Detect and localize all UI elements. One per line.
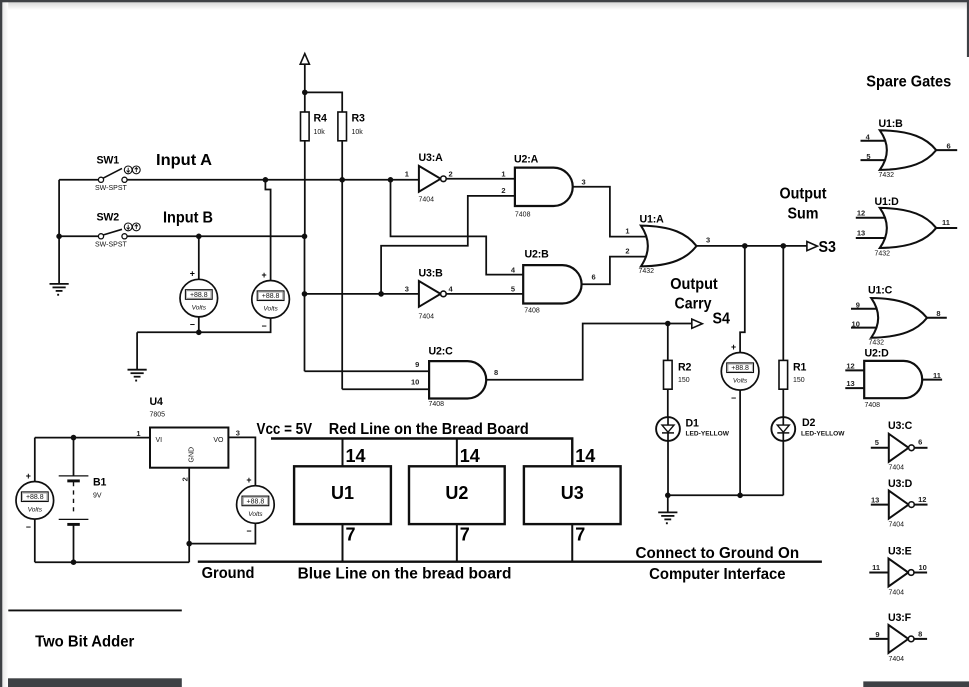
svg-text:3: 3 — [236, 429, 240, 438]
wire U1 pin14 — [342, 439, 344, 467]
svg-text:U3:D: U3:D — [888, 478, 913, 490]
svg-text:5: 5 — [511, 285, 515, 294]
svg-text:+: + — [190, 269, 195, 279]
pin 10 U3:E — [919, 563, 927, 572]
wire U3:A out — [446, 178, 515, 180]
inverter U3:D — [871, 478, 928, 529]
and-gate U2:D — [845, 347, 942, 409]
chip U3 box — [524, 466, 621, 524]
wire B branch to U2:A pin2 — [381, 196, 515, 294]
label connect — [636, 545, 800, 562]
svg-text:Computer Interface: Computer Interface — [649, 566, 786, 583]
ground left — [50, 284, 69, 296]
svg-text:LED-YELLOW: LED-YELLOW — [686, 431, 730, 438]
chip U1 box — [294, 466, 391, 524]
junction dot gnd-V5 — [186, 541, 192, 547]
ground leds — [658, 512, 677, 524]
battery B1 — [59, 438, 107, 563]
svg-text:VO: VO — [213, 437, 224, 444]
pin 10 U1:C — [852, 319, 860, 328]
wire U4 input — [35, 437, 150, 439]
label interface — [649, 566, 786, 583]
voltmeter V3 — [721, 342, 759, 403]
svg-text:−: − — [262, 321, 267, 331]
wire U2 pin7 — [456, 524, 458, 562]
svg-text:+88.8: +88.8 — [247, 498, 265, 505]
wire V4 column top — [34, 438, 36, 482]
svg-text:7: 7 — [575, 525, 585, 545]
svg-text:Output: Output — [670, 276, 718, 293]
pin 11 U2:D — [933, 371, 941, 380]
wire V1 top — [198, 236, 200, 279]
svg-text:150: 150 — [793, 377, 805, 384]
svg-text:U3:E: U3:E — [888, 546, 912, 558]
svg-text:−: − — [246, 526, 251, 536]
svg-text:7: 7 — [460, 525, 470, 545]
pin 12 U1:D — [857, 208, 865, 217]
pin 2 U2:A — [501, 186, 505, 195]
pin 12 U3:D — [918, 495, 926, 504]
label blue line — [298, 565, 512, 582]
svg-text:6: 6 — [918, 437, 922, 446]
pin 12 U2:D — [846, 362, 854, 371]
svg-text:11: 11 — [872, 563, 880, 572]
label Two Bit Adder — [35, 633, 134, 650]
and-gate U2:C — [429, 346, 487, 409]
svg-text:SW2: SW2 — [97, 212, 120, 224]
pin 4 U3:B — [449, 285, 454, 294]
junction dot B-R4 — [302, 234, 308, 240]
wire R1-D2 — [782, 389, 784, 417]
svg-text:9: 9 — [415, 360, 419, 369]
svg-text:8: 8 — [936, 309, 940, 318]
svg-text:5: 5 — [866, 152, 870, 161]
inverter U3:B — [419, 268, 447, 321]
svg-text:10: 10 — [919, 563, 927, 572]
junction dot A-V2 — [263, 177, 269, 183]
svg-text:7805: 7805 — [150, 412, 166, 419]
svg-text:+: + — [262, 270, 267, 280]
label Output Sum — [780, 186, 828, 223]
svg-text:+: + — [731, 342, 736, 352]
svg-text:1: 1 — [405, 170, 409, 179]
svg-text:10k: 10k — [314, 129, 326, 136]
junction dot A-branch — [388, 177, 394, 183]
wire pullup top branch — [305, 92, 342, 112]
svg-text:VI: VI — [156, 437, 163, 444]
svg-text:150: 150 — [678, 377, 690, 384]
svg-text:LED-YELLOW: LED-YELLOW — [801, 431, 845, 438]
wire D2 bottom — [782, 441, 784, 495]
wire node B column — [304, 236, 306, 371]
svg-text:Input A: Input A — [156, 152, 212, 169]
or-gate U1:A — [639, 214, 697, 276]
wire U4 gnd column — [188, 468, 190, 563]
svg-text:U1: U1 — [331, 483, 354, 503]
power symbol VCC arrow — [300, 54, 309, 112]
svg-text:Sum: Sum — [788, 205, 819, 222]
pin 8 U2:C — [494, 368, 498, 377]
wire U1 pin7 — [342, 524, 344, 562]
svg-text:7432: 7432 — [639, 268, 655, 275]
pin 1 U1:A — [625, 227, 629, 236]
voltmeter V4 — [16, 471, 54, 532]
wire gnd3 stub — [667, 495, 669, 512]
or-gate U1:D — [856, 196, 957, 257]
inverter U3:A — [419, 152, 447, 203]
svg-text:+88.8: +88.8 — [190, 292, 208, 299]
voltmeter V2 — [252, 270, 290, 331]
svg-text:9: 9 — [856, 300, 860, 309]
svg-text:2: 2 — [501, 186, 505, 195]
svg-text:9V: 9V — [93, 493, 102, 500]
svg-text:7404: 7404 — [889, 590, 905, 597]
wire carry output — [486, 324, 692, 380]
svg-text:5: 5 — [875, 438, 879, 447]
wire V5 bottom link — [189, 524, 255, 544]
svg-text:U1:B: U1:B — [879, 118, 904, 130]
svg-text:3: 3 — [706, 236, 710, 245]
title line — [8, 609, 182, 611]
svg-text:Carry: Carry — [675, 296, 712, 313]
svg-text:+: + — [26, 471, 31, 481]
svg-text:S4: S4 — [713, 310, 731, 327]
svg-text:U2:B: U2:B — [525, 249, 550, 261]
wire SW left column — [58, 180, 60, 284]
svg-text:3: 3 — [405, 285, 409, 294]
svg-text:1: 1 — [136, 429, 140, 438]
junction dot B column U3B — [302, 291, 308, 297]
svg-text:3: 3 — [582, 178, 586, 187]
label 14 U2 — [460, 446, 480, 466]
pin 3 U2:A — [582, 178, 586, 187]
pin 9 U1:C — [856, 300, 860, 309]
wire U2 pin14 — [456, 439, 458, 467]
svg-text:12: 12 — [857, 208, 865, 217]
svg-text:Volts: Volts — [248, 511, 263, 518]
svg-text:D2: D2 — [802, 417, 816, 429]
svg-text:Volts: Volts — [263, 306, 278, 313]
label S4 — [713, 310, 731, 327]
wire bottom rail — [35, 561, 189, 563]
svg-text:7408: 7408 — [524, 308, 540, 315]
pin 8 U3:F — [918, 629, 922, 638]
pin 1 U2:A — [501, 170, 505, 179]
inverter U3:C — [871, 420, 928, 471]
wire ground2 column — [136, 332, 138, 369]
svg-text:U2:D: U2:D — [865, 347, 890, 359]
label 7 U1 — [346, 525, 356, 545]
node S4 arrow — [692, 319, 703, 328]
svg-text:13: 13 — [871, 496, 879, 505]
svg-text:−: − — [731, 393, 736, 403]
svg-text:11: 11 — [933, 371, 941, 380]
svg-text:7404: 7404 — [889, 465, 905, 472]
svg-text:1: 1 — [501, 170, 505, 179]
wire vcc rail — [271, 439, 572, 467]
svg-text:−: − — [26, 522, 31, 532]
label S3 — [819, 239, 837, 256]
pin 5 U1:B — [866, 152, 870, 161]
svg-text:SW-SPST: SW-SPST — [95, 185, 127, 192]
or-gate U1:C — [851, 285, 947, 347]
svg-text:B1: B1 — [93, 477, 107, 489]
svg-text:8: 8 — [494, 368, 498, 377]
label Vcc — [257, 421, 313, 438]
wire D1 bottom — [667, 441, 669, 495]
wire U2:C pin9 — [305, 370, 430, 372]
svg-text:10k: 10k — [352, 129, 364, 136]
pin 13 U1:D — [857, 229, 865, 238]
wire U2:A out elbow — [573, 187, 652, 237]
resistor R4 — [301, 112, 328, 141]
voltmeter V1 — [180, 269, 218, 330]
pin 5 U3:C — [875, 438, 879, 447]
svg-text:Vcc = 5V: Vcc = 5V — [257, 421, 313, 438]
pin 1 U4 — [136, 429, 140, 438]
wire led ground rail — [668, 494, 784, 496]
svg-text:7432: 7432 — [879, 172, 895, 179]
svg-text:Blue Line on the bread board: Blue Line on the bread board — [298, 565, 512, 582]
svg-text:Spare Gates: Spare Gates — [866, 73, 951, 90]
svg-text:Two Bit Adder: Two Bit Adder — [35, 633, 134, 650]
pin 6 U1:B — [947, 141, 951, 150]
svg-text:GND: GND — [189, 447, 196, 463]
svg-text:U3:C: U3:C — [888, 420, 913, 432]
svg-text:U3:F: U3:F — [888, 612, 912, 624]
junction dot battery top — [71, 435, 77, 441]
svg-text:R3: R3 — [352, 113, 366, 125]
svg-text:U2:C: U2:C — [429, 346, 454, 358]
pin 3 U3:B — [405, 285, 409, 294]
svg-text:Volts: Volts — [28, 507, 43, 514]
and-gate U2:A — [514, 154, 573, 219]
svg-text:U2:A: U2:A — [514, 154, 539, 166]
svg-text:2: 2 — [625, 247, 629, 256]
node S3 arrow — [807, 242, 818, 251]
wire U2:B out elbow — [582, 257, 652, 285]
switch SW2 — [95, 212, 140, 249]
label 14 U3 — [575, 446, 595, 466]
svg-text:Connect to Ground On: Connect to Ground On — [636, 545, 800, 562]
wire U3:B input line — [305, 293, 419, 295]
label Spare Gates — [866, 73, 951, 90]
pin 3 U1:A — [706, 236, 710, 245]
svg-text:13: 13 — [857, 229, 865, 238]
wire R2 top — [667, 324, 669, 361]
svg-text:U3: U3 — [561, 483, 584, 503]
or-gate U1:B — [861, 118, 958, 179]
svg-text:7408: 7408 — [429, 401, 445, 408]
junction dot B-V1 — [196, 234, 202, 240]
junction dot battery bottom — [71, 559, 77, 565]
svg-text:−: − — [190, 320, 195, 330]
svg-text:R4: R4 — [314, 113, 328, 125]
junction dot sum-V3 — [742, 243, 748, 249]
label red line — [329, 421, 529, 438]
pin 10 U2:C — [411, 378, 419, 387]
svg-text:+88.8: +88.8 — [731, 365, 749, 372]
svg-text:Volts: Volts — [192, 305, 207, 312]
svg-text:12: 12 — [846, 362, 854, 371]
regulator U4 box — [150, 396, 229, 481]
wire V2 jog — [265, 180, 270, 281]
junction dot SW left — [56, 234, 62, 240]
label 14 U1 — [346, 446, 366, 466]
resistor R3 — [338, 112, 365, 141]
pin 1 U3:A — [405, 170, 409, 179]
wire A branch to U2:B pin4 — [391, 180, 524, 275]
svg-text:6: 6 — [592, 273, 596, 282]
svg-text:Output: Output — [780, 186, 828, 203]
svg-text:+88.8: +88.8 — [262, 293, 280, 300]
svg-text:6: 6 — [947, 141, 951, 150]
wire U4 output — [228, 437, 255, 485]
svg-text:8: 8 — [918, 629, 922, 638]
and-gate U2:B — [523, 249, 581, 315]
svg-text:SW-SPST: SW-SPST — [95, 241, 127, 248]
svg-text:+88.8: +88.8 — [26, 494, 44, 501]
ground meters — [128, 370, 147, 382]
svg-text:R2: R2 — [678, 362, 692, 374]
pin 13 U3:D — [871, 496, 879, 505]
wire V1 bottom — [198, 317, 200, 332]
junction dot V bottoms — [196, 330, 202, 336]
svg-text:U3:A: U3:A — [419, 152, 444, 164]
label Ground — [202, 565, 255, 582]
svg-text:Input B: Input B — [163, 210, 213, 227]
wire input B line — [59, 235, 304, 237]
junction dot D1 gnd — [665, 493, 671, 499]
wire U3 pin7 — [571, 524, 573, 562]
pin 2 U1:A — [625, 247, 629, 256]
label Output Carry — [670, 276, 718, 313]
pin 11 U1:D — [942, 218, 950, 227]
pin 6 U2:B — [592, 273, 596, 282]
chip U2 box — [409, 466, 505, 524]
led D2 — [771, 417, 845, 441]
svg-text:7432: 7432 — [875, 250, 891, 257]
svg-text:14: 14 — [346, 446, 366, 466]
wire V3 branch — [740, 246, 745, 353]
voltmeter V5 — [237, 475, 275, 536]
svg-text:7404: 7404 — [419, 196, 435, 203]
wire sum output — [697, 245, 807, 247]
svg-text:+: + — [246, 475, 251, 485]
svg-text:1: 1 — [625, 227, 629, 236]
svg-text:D1: D1 — [686, 418, 700, 430]
led D1 — [656, 417, 730, 441]
svg-text:7408: 7408 — [515, 212, 531, 219]
wire V3 bottom — [739, 390, 741, 495]
label 7 U2 — [460, 525, 470, 545]
wire V2 bottom — [137, 318, 271, 333]
svg-text:SW1: SW1 — [97, 155, 120, 167]
svg-text:Ground: Ground — [202, 565, 255, 582]
svg-text:7404: 7404 — [889, 656, 905, 663]
junction dot pullup top — [302, 90, 308, 96]
svg-text:Red Line on the Bread Board: Red Line on the Bread Board — [329, 421, 529, 438]
svg-text:Volts: Volts — [733, 378, 748, 385]
svg-text:14: 14 — [575, 446, 595, 466]
svg-text:11: 11 — [942, 218, 950, 227]
svg-text:U1:D: U1:D — [875, 196, 900, 208]
wire R4 column — [304, 141, 306, 237]
wire U2:C pin10 — [342, 388, 429, 390]
junction dot V3 gnd — [737, 493, 743, 499]
pin 5 U2:B — [511, 285, 515, 294]
svg-text:R1: R1 — [793, 362, 807, 374]
svg-text:2: 2 — [449, 170, 453, 179]
svg-text:2: 2 — [181, 477, 190, 481]
svg-text:13: 13 — [846, 379, 854, 388]
svg-text:U1:A: U1:A — [640, 214, 665, 226]
svg-text:U2: U2 — [445, 483, 468, 503]
inverter U3:F — [869, 612, 927, 663]
pin 3 U4 — [236, 429, 240, 438]
junction dot sum-R1 — [781, 243, 787, 249]
svg-text:7404: 7404 — [419, 314, 435, 321]
label 7 U3 — [575, 525, 585, 545]
svg-text:7: 7 — [346, 525, 356, 545]
svg-text:7432: 7432 — [869, 340, 885, 347]
pin 8 U1:C — [936, 309, 940, 318]
pin 2 U3:A — [449, 170, 453, 179]
pin 9 U3:F — [875, 630, 879, 639]
wire R1 top — [782, 246, 784, 361]
svg-text:U1:C: U1:C — [868, 285, 893, 297]
wire R2-D1 — [667, 389, 669, 417]
svg-text:7404: 7404 — [889, 522, 905, 529]
svg-text:9: 9 — [875, 630, 879, 639]
resistor R1 — [779, 360, 807, 389]
svg-text:U4: U4 — [150, 396, 164, 408]
svg-text:7408: 7408 — [865, 402, 881, 409]
wire blue rail — [198, 561, 822, 563]
svg-text:12: 12 — [918, 495, 926, 504]
inverter U3:E — [869, 546, 927, 597]
wire V4 bottom — [34, 519, 36, 562]
switch SW1 — [95, 155, 140, 192]
svg-text:10: 10 — [852, 319, 860, 328]
pin 13 U2:D — [846, 379, 854, 388]
label Input B — [163, 210, 213, 227]
pin 9 U2:C — [415, 360, 419, 369]
pin 6 U3:C — [918, 437, 922, 446]
wire U3:B out — [446, 293, 523, 295]
svg-text:U3:B: U3:B — [419, 268, 444, 280]
pin 4 U1:B — [866, 132, 871, 141]
label Input A — [156, 152, 212, 169]
svg-text:S3: S3 — [819, 239, 837, 256]
pin 11 U3:E — [872, 563, 880, 572]
wire R3 column — [341, 141, 343, 389]
resistor R2 — [664, 360, 692, 389]
wire input A line — [59, 179, 419, 181]
junction dot B-U3B line — [378, 291, 384, 297]
svg-text:14: 14 — [460, 446, 480, 466]
junction dot carry-R2 — [665, 321, 671, 327]
junction dot A-R3 — [339, 177, 345, 183]
svg-text:10: 10 — [411, 378, 419, 387]
pin 4 U2:B — [511, 265, 516, 274]
